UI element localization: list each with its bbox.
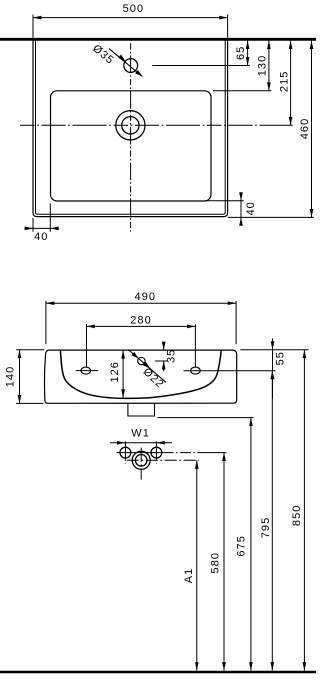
W1 arrow left-pointing: [156, 441, 164, 445]
siphon horizontal centerline to A1: [127, 459, 200, 461]
right fixing hole ellipse: [191, 367, 201, 374]
dim 215 arrow down: [289, 117, 293, 125]
dim 500 arrow right: [219, 16, 227, 20]
dim 215 line: [290, 41, 292, 126]
dim 140 arrow down: [18, 395, 22, 403]
dim A1 arrow down: [195, 662, 199, 670]
dim 40 bottom extension right: [49, 204, 51, 232]
dim 130 arrow up: [267, 41, 271, 49]
svg-text:675: 675: [236, 535, 248, 557]
O35 arrow at circle edge: [118, 55, 125, 62]
dim 140 extension bottom: [16, 402, 43, 404]
dim 460 arrow up: [310, 41, 314, 49]
svg-text:280: 280: [130, 314, 152, 326]
dim 675 arrow down: [249, 662, 253, 670]
dim 280 extension right: [194, 324, 196, 366]
svg-text:490: 490: [135, 291, 157, 303]
dim 126 arrow up: [121, 350, 125, 358]
dim 280 extension left: [86, 324, 88, 366]
dim 140 extension top: [16, 349, 44, 351]
svg-text:126: 126: [109, 361, 121, 383]
dim 850 arrow up: [303, 350, 307, 358]
diameter leader line O35: [109, 49, 142, 77]
faucet hole circle (front view): [138, 357, 145, 364]
top edge extension line to 850 dim: [240, 349, 308, 351]
dim W1 line: [110, 442, 172, 444]
dim 40 right arrow down-to-top-edge: [239, 192, 243, 200]
dim 500 line: [33, 17, 228, 19]
svg-text:A1: A1: [183, 568, 195, 584]
O22 arrow beyond circle: [143, 362, 150, 369]
dim 280 arrow right: [187, 325, 195, 329]
dim 850 arrow down: [303, 662, 307, 670]
vertical centerline (top view): [130, 43, 132, 233]
svg-text:460: 460: [299, 118, 311, 140]
dim 40 bottom arrow left: [25, 227, 33, 231]
svg-text:850: 850: [291, 505, 303, 527]
O22 arrow at circle edge: [131, 352, 138, 359]
svg-text:795: 795: [260, 517, 272, 539]
dim 40 right arrow up-to-bottom-edge: [239, 217, 243, 225]
dim 130 arrow down: [267, 82, 271, 90]
right supply circle: [151, 447, 162, 458]
siphon outer circle: [132, 451, 150, 469]
front view outer outline: [45, 350, 237, 403]
dim 130 line: [268, 41, 270, 91]
floor line: [0, 671, 316, 674]
svg-text:55: 55: [274, 351, 286, 365]
dim 130 extension line (basin top edge): [213, 90, 271, 92]
siphon inner circle: [135, 455, 147, 467]
faucet hole circle (top view): [124, 59, 138, 73]
W1 extension right through circle: [155, 441, 157, 463]
dim 795 line: [271, 371, 273, 671]
dim 580 arrow down: [222, 662, 226, 670]
drain outer circle (top view): [116, 111, 145, 140]
drain outlet rectangle (front view): [128, 404, 155, 417]
drain outlet extension line to 675: [157, 417, 253, 419]
dim 55 arrow up (tip at hole center): [271, 371, 275, 379]
faucet center tick to 35 dim: [155, 360, 168, 362]
drain inner circle (top view): [122, 117, 139, 134]
dim 490 line: [46, 302, 236, 304]
W1 extension left through circle: [124, 441, 126, 463]
right fixing hole centerline extended to 795 dim: [184, 370, 276, 372]
dim 40 bottom line: [26, 227, 58, 229]
dim 460 line: [311, 41, 313, 218]
dim 460 arrow down: [310, 209, 314, 217]
sink outer outline (top view): [33, 39, 228, 217]
svg-text:35: 35: [165, 349, 177, 363]
svg-text:130: 130: [256, 55, 268, 77]
left fixing hole centerline: [76, 370, 99, 372]
basin interior curve (front view): [60, 350, 221, 398]
O35 arrow at line end: [135, 70, 142, 77]
dim 500 extension line right: [227, 15, 229, 38]
dim 795 arrow up: [270, 371, 274, 379]
dim 35 arrow up (tip at faucet center): [162, 361, 166, 369]
dim 65 line: [247, 41, 249, 66]
dim 215 arrow up: [289, 41, 293, 49]
horizontal centerline through drain (top view): [20, 124, 293, 126]
dim 65 extension line (faucet center): [152, 65, 250, 67]
dim 55 line: [272, 338, 274, 398]
svg-text:65: 65: [235, 46, 247, 60]
dim 35 line upper: [163, 342, 165, 350]
dim 40 right line: [240, 192, 242, 225]
dim 140 line: [19, 350, 21, 404]
dim 65 arrow up: [246, 41, 250, 49]
dim 580 line: [223, 453, 225, 671]
dim 850 line: [303, 350, 305, 671]
svg-text:W1: W1: [131, 427, 150, 439]
svg-text:500: 500: [123, 3, 145, 15]
wall line (top view): [0, 38, 316, 41]
dim 126 arrow down: [121, 389, 125, 397]
dim 35 arrow down (tip at top edge): [162, 342, 166, 350]
supply circles centerline: [117, 452, 227, 454]
dim 490 extension left: [45, 301, 47, 344]
dim 126 line: [122, 350, 124, 398]
basin rounded rectangle (top view): [51, 91, 212, 201]
dim 795 arrow down: [270, 662, 274, 670]
W1 arrow right-pointing: [117, 441, 125, 445]
dim 280 line: [87, 325, 196, 327]
dim 490 arrow right: [228, 301, 236, 305]
dim A1 arrow up: [195, 460, 199, 468]
siphon vertical centerline: [140, 448, 142, 480]
dim A1 line: [196, 460, 198, 670]
dim 580 arrow up: [222, 453, 226, 461]
svg-text:40: 40: [245, 201, 257, 215]
dim 280 arrow left: [87, 325, 95, 329]
dim 40 bottom arrow right: [50, 227, 58, 231]
dim 35 line lower: [163, 361, 165, 371]
svg-text:215: 215: [278, 71, 290, 93]
left supply circle: [120, 447, 131, 458]
diameter leader line O22: [128, 350, 166, 383]
svg-text:580: 580: [209, 552, 221, 574]
dim 55 arrow down (tip at top edge): [271, 341, 275, 349]
sink inner rim line (top view): [36, 39, 226, 214]
dim 675 arrow up: [249, 418, 253, 426]
left fixing hole ellipse: [81, 367, 91, 374]
dim 40 right extension (basin bottom): [205, 200, 244, 202]
dim 65 arrow down: [246, 57, 250, 65]
dim 460 extension line (sink bottom): [228, 216, 314, 218]
dim 500 arrow left: [33, 16, 41, 20]
dim 490 arrow left: [46, 301, 54, 305]
dim 500 extension line left: [32, 15, 34, 38]
dim 40 bottom extension left: [32, 218, 34, 232]
svg-text:40: 40: [34, 231, 48, 243]
dim 490 extension right: [235, 301, 237, 344]
dim 675 line: [250, 418, 252, 671]
dim 140 arrow up: [18, 350, 22, 358]
svg-text:140: 140: [5, 366, 17, 388]
